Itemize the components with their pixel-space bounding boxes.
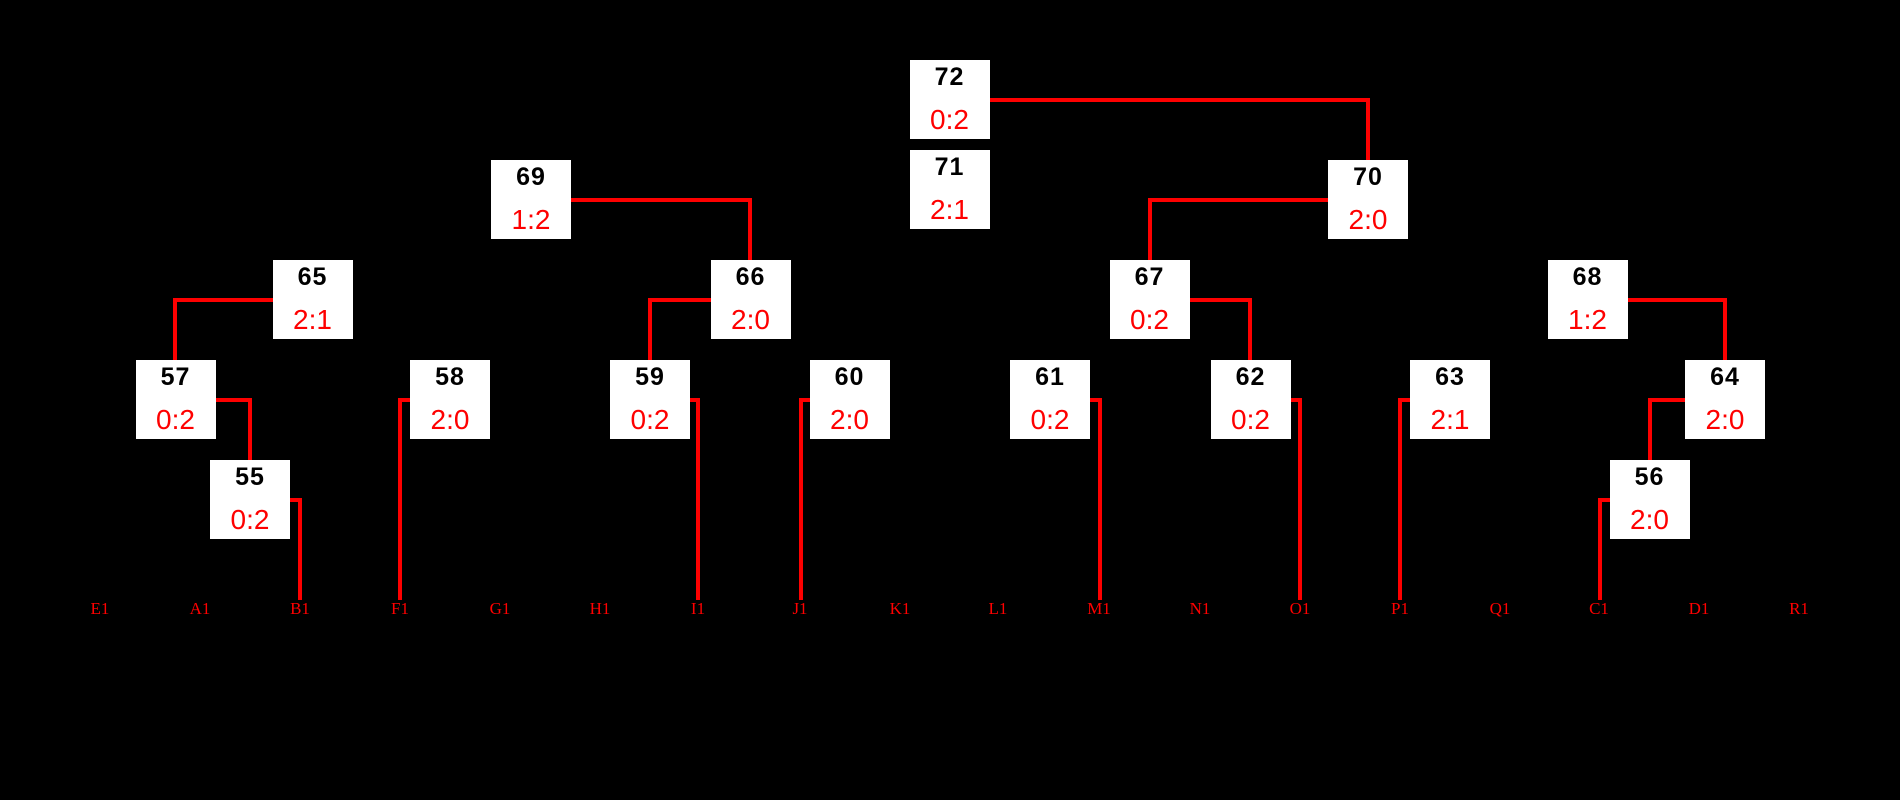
wire 57 to 55 [216,398,253,402]
node match 70 [1328,160,1408,239]
node team F1 [370,600,430,617]
wire 61 to M1 [1090,398,1102,402]
node team N1 [1170,600,1230,617]
wire 62 to O1 [1291,398,1303,402]
node match 61 [1010,360,1090,439]
node match 68 [1548,260,1628,339]
wire 65 to 57 [173,298,273,302]
node team Q1 [1470,600,1530,617]
wire 66 to 59 [648,298,711,302]
wire 59 to I1 [690,398,700,402]
node team D1 [1669,600,1729,617]
wire 56 to C1 [1598,498,1610,502]
node team O1 [1270,600,1330,617]
node match 64 [1685,360,1765,439]
node team J1 [770,600,830,617]
node match 62 [1211,360,1291,439]
node team E1 [70,600,130,617]
wire 63 to P1 [1398,398,1410,402]
node match 63 [1410,360,1490,439]
wire 67 to 62 [1190,298,1253,302]
node team C1 [1569,600,1629,617]
node match 67 [1110,260,1190,339]
node team G1 [470,600,530,617]
node match 65 [273,260,353,339]
wire 69 to 66 [571,198,752,202]
wire 70 to 67 [1148,198,1329,202]
node team L1 [968,600,1028,617]
wire 68 to 64 [1628,298,1728,302]
node match 72 [910,60,990,139]
wire 72 to 70 [990,98,1371,102]
wire 55 to B1 [290,498,302,502]
wire 58 to F1 [398,398,410,402]
node match 55 [210,460,290,539]
node team R1 [1769,600,1829,617]
node team A1 [170,600,230,617]
node team K1 [870,600,930,617]
wire 60 to J1 [799,398,810,402]
node team M1 [1069,600,1129,617]
node match 71 [910,150,990,229]
node match 59 [610,360,690,439]
node match 60 [810,360,890,439]
node match 58 [410,360,490,439]
wire 64 to 56 [1648,398,1685,402]
node team B1 [270,600,330,617]
node team I1 [668,600,728,617]
node match 69 [491,160,571,239]
node match 56 [1610,460,1690,539]
node match 66 [711,260,791,339]
node team H1 [570,600,630,617]
node match 57 [136,360,216,439]
node team P1 [1370,600,1430,617]
